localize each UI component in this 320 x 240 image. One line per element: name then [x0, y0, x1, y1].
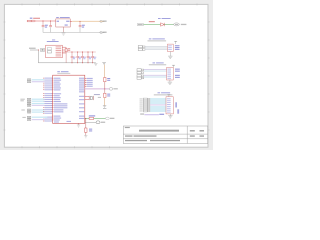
U5 right labels: [175, 69, 180, 78]
connector c2 plugs: [20, 98, 44, 102]
power bar above U4: [174, 40, 177, 42]
label NRST end: [159, 114, 164, 115]
label subtitle gray: [149, 64, 166, 65]
capacitor C7: [87, 52, 92, 64]
title block company row text: [125, 135, 133, 136]
power bar above J5 box: [168, 94, 171, 96]
J5 right vertical label: [175, 102, 177, 107]
wire cyan c2b: [32, 101, 45, 102]
label C3 value: [82, 25, 85, 26]
net label column A with stubs: [43, 78, 52, 122]
wire cyan c5: [32, 117, 48, 118]
resistor R2: [104, 93, 106, 97]
resistor R5 vertical: [85, 128, 87, 132]
wire row2 to button: [85, 121, 96, 123]
capacitor C5: [76, 52, 81, 64]
wire lavender c1: [32, 81, 45, 82]
junction: [42, 20, 45, 23]
J1 right stubs: [62, 47, 66, 53]
title block TITLE: label: [125, 127, 130, 128]
title block date row text: [125, 140, 147, 141]
ground symbol R5: [84, 136, 87, 138]
IC J5 box: [166, 97, 173, 114]
resistor R4 horizontal: [89, 117, 94, 119]
junction: [49, 20, 52, 23]
label F1: [30, 18, 33, 19]
resistor R1: [104, 78, 106, 82]
junction: [103, 87, 106, 90]
label CC values: [68, 48, 71, 49]
wire green in: [144, 24, 161, 26]
sheet margin left: [0, 0, 4, 150]
plug glyph: [41, 48, 45, 51]
wire +3V3 rail: [72, 20, 104, 22]
wire VBUS rail: [62, 51, 96, 53]
button SW1: [96, 121, 100, 124]
wire R2 down: [104, 98, 106, 106]
IC U5 box: [167, 67, 174, 80]
MCU right pin names: [67, 78, 85, 122]
ground symbol caps row: [94, 63, 97, 65]
label subtitle gray: [148, 40, 167, 41]
U1 GND pin wire: [63, 27, 65, 32]
capacitor C3: [79, 21, 82, 32]
J5 inner labels: [167, 98, 171, 112]
label R2: [107, 94, 110, 95]
label subtitle gray: [154, 94, 173, 95]
net label NRST: [140, 113, 144, 114]
wire gnd loop vertical: [37, 50, 39, 63]
capacitor C4: [71, 52, 76, 64]
wires to U5: [144, 69, 167, 77]
net label usb left: [29, 48, 36, 49]
MCU bottom ground stub: [78, 123, 80, 124]
diode D1: [161, 23, 165, 26]
plug column with labels: [140, 98, 167, 112]
sheet margin top: [0, 0, 213, 4]
plug glyphs: [137, 69, 141, 71]
wire cyan c4a: [32, 109, 45, 110]
label U4 title: [149, 38, 152, 39]
wire NRST lavender: [144, 114, 159, 115]
capacitor C1: [42, 21, 45, 32]
label J5 title: [158, 92, 161, 93]
net port +5V arrow: [27, 20, 33, 22]
net label GND right: [100, 31, 103, 33]
frame ticks right: [208, 22, 210, 130]
frame ticks left: [3, 22, 5, 130]
wire lavender c5: [32, 119, 46, 120]
crystal Y1 stubs: [85, 95, 89, 97]
wire UDP lavender: [85, 88, 109, 90]
crystal Y1: [89, 96, 93, 100]
wire cyan c3: [32, 103, 45, 104]
sheet margin right: [209, 0, 213, 150]
U4 right labels: [175, 45, 180, 46]
MCU left pin stubs: [52, 78, 54, 120]
J1 usb glyphs: [47, 48, 51, 50]
connector c4 plugs: [21, 109, 44, 113]
wire green to port: [94, 117, 106, 119]
MCU right pin stubs and labels: [85, 78, 87, 86]
wire +5V input: [33, 20, 56, 22]
wire gnd to R1: [104, 65, 106, 78]
U4 inner labels: [168, 45, 172, 46]
net port P32: [106, 117, 110, 120]
fuse F1: [31, 20, 35, 22]
wire cyan c4b: [32, 112, 45, 113]
label D1 blue: [158, 18, 161, 19]
label R5: [89, 129, 92, 130]
wire junction down: [85, 118, 87, 128]
ground below U5: [169, 80, 171, 82]
connector c1 plugs: [27, 79, 44, 83]
regulator U1 box: [56, 19, 70, 27]
wire GND rail: [43, 31, 104, 33]
label 500mA: [33, 18, 40, 19]
plug glyphs: [138, 46, 142, 48]
label U3 CH552G title: [57, 71, 60, 72]
title block REV cell text: [190, 130, 195, 131]
ground below J5: [169, 114, 171, 116]
connector c3 plugs: [27, 103, 44, 107]
label right of port: [181, 24, 187, 25]
label U5 title: [153, 62, 156, 63]
label U1 AMS1117-3.3: [56, 17, 59, 18]
MCU left pin names: [54, 78, 68, 123]
ground below U4: [169, 52, 171, 56]
MCU U3 box: [53, 75, 85, 123]
ground symbol: [62, 33, 66, 35]
frame ticks top: [22, 3, 197, 5]
label R1: [107, 78, 110, 79]
capacitor C2 branch: [49, 21, 52, 32]
pin stub: [37, 49, 39, 51]
wire node to R2: [104, 89, 106, 93]
wire cyan c1: [32, 79, 45, 80]
wire boot green: [85, 117, 89, 119]
U1 pin name VOUT: [66, 21, 69, 22]
net label +3V3 right: [100, 20, 103, 22]
label D1 value red: [149, 21, 155, 22]
label J1 USB-C title: [52, 39, 55, 42]
net port +5V right: [137, 24, 143, 26]
wire CC bus vertical: [65, 47, 67, 63]
junction: [84, 117, 87, 120]
connector c5 plugs: [22, 116, 47, 120]
power bar above U5: [172, 64, 175, 66]
ground symbol above R1: [102, 62, 106, 64]
ground symbol below R2: [103, 106, 106, 108]
label C1 value: [45, 25, 48, 26]
capacitor C8: [91, 52, 96, 64]
U1 pin name VIN: [57, 21, 59, 22]
net port VIN ellipse: [174, 23, 180, 26]
net port UDP: [109, 88, 113, 91]
U1 output pin stub: [70, 20, 72, 22]
wire lavender c3: [32, 105, 45, 106]
decoupling caps row: [71, 52, 97, 64]
U5 inner labels: [167, 69, 171, 80]
title block title text CH552 Adder-Board [gameheus]: [139, 130, 179, 132]
title block outline: [123, 126, 208, 144]
sheet margin bottom: [0, 148, 213, 150]
title block sheet cell text: [190, 135, 195, 136]
wire bar lavender to J5: [150, 104, 166, 105]
IC U4 box: [168, 44, 174, 51]
ground symbol MCU: [77, 125, 80, 127]
label R4 value: [89, 115, 95, 116]
wires to U4: [145, 46, 168, 49]
wire green out: [164, 24, 173, 26]
resistor CC: [65, 49, 67, 52]
frame border: [4, 4, 208, 147]
junction: [79, 20, 82, 23]
wire bars cyan to J5: [150, 98, 166, 111]
U1 pin name GND: [65, 25, 68, 26]
wire R5 to gnd: [85, 132, 87, 135]
connector J1 box: [46, 45, 63, 58]
wire usb in: [30, 49, 38, 51]
J1 pin names: [56, 46, 62, 56]
wire R1 to node: [104, 82, 106, 89]
label Y1: [94, 94, 100, 95]
capacitor C6: [81, 52, 86, 64]
frame ticks bottom: [22, 146, 110, 148]
wire gnd loop horizontal: [38, 62, 96, 64]
wire cyan c2a: [32, 99, 45, 100]
